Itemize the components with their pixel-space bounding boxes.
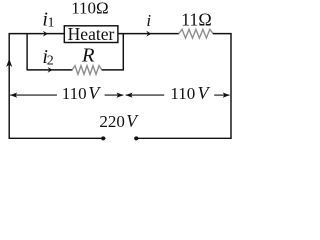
arrow i1 on top wire — [43, 31, 48, 37]
svg-text:R: R — [81, 45, 95, 67]
node dot: left terminal — [101, 136, 105, 140]
svg-text:220V: 220V — [99, 111, 139, 131]
current arrow up on left wire — [6, 59, 12, 68]
dimension arrow: right 110 V right head — [223, 93, 230, 98]
resistor 11 ohm zigzag — [179, 29, 214, 38]
arrow i on wire — [146, 31, 151, 37]
svg-text:110Ω: 110Ω — [71, 0, 109, 17]
svg-text:110V: 110V — [62, 83, 101, 103]
svg-text:110V: 110V — [170, 83, 210, 103]
wire: R branch horizontal right part — [102, 69, 124, 71]
node: tee junction left — [26, 33, 28, 70]
dimension arrow: right 110 V left head — [126, 93, 133, 98]
svg-text:11Ω: 11Ω — [181, 10, 212, 30]
resistor R zigzag — [72, 66, 102, 75]
svg-text:Heater: Heater — [68, 24, 115, 44]
dimension line: right 110 V right segment — [214, 94, 229, 96]
svg-text:1: 1 — [48, 16, 55, 31]
heater box — [64, 26, 118, 43]
wire: bottom left segment — [9, 137, 106, 139]
arrow i2 on R branch — [48, 67, 53, 73]
node: junction vertical joining branches — [122, 34, 124, 71]
svg-text:i: i — [146, 11, 151, 30]
wire: left vertical — [8, 33, 10, 139]
wire: top horizontal to heater — [9, 33, 65, 35]
wire: bottom right segment — [134, 137, 231, 139]
node dot: right terminal — [134, 136, 138, 140]
svg-text:2: 2 — [47, 54, 54, 69]
dimension arrow: left 110 V left head — [10, 93, 17, 98]
wire: heater to 11 ohm resistor — [118, 33, 179, 35]
dimension line: left 110 V right segment — [105, 94, 124, 96]
dimension line: right 110 V left segment — [126, 94, 165, 96]
wire: 11 ohm resistor to right corner — [213, 33, 232, 35]
dimension line: left 110 V left segment — [10, 94, 57, 96]
dimension arrow: left 110 V right head — [117, 93, 124, 98]
wire: R branch horizontal left part — [27, 69, 72, 71]
wire: right vertical — [230, 33, 232, 139]
